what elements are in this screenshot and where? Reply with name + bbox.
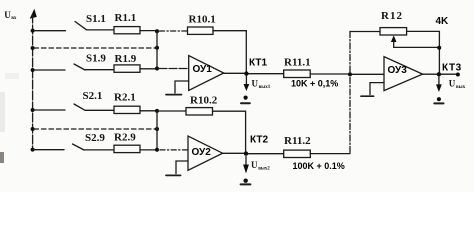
wire U3 noninverting input (370, 83, 384, 95)
input arrow (30, 9, 37, 19)
resistor R2.1 (114, 106, 140, 113)
node bus ellipsis1 (31, 46, 35, 50)
op-amp U2 (188, 136, 223, 170)
resistor R11.1 (284, 70, 311, 78)
resistor R11.2 (284, 150, 311, 157)
node bus row2 (31, 68, 35, 72)
svg-text:ОУ3: ОУ3 (388, 65, 408, 76)
wire row2 right (140, 68, 156, 70)
switch S1.1 (75, 22, 87, 30)
wire U1 noninverting input (175, 81, 189, 93)
svg-text:S1.9: S1.9 (86, 53, 106, 65)
node KT3 (437, 72, 441, 76)
node KT1 (244, 71, 248, 75)
wire ellipsis group2 (34, 128, 157, 130)
node B1 (155, 109, 159, 113)
svg-text:U: U (4, 10, 11, 20)
svg-text:КТ2: КТ2 (250, 135, 268, 146)
wire input bus (32, 14, 34, 150)
ground U2 (166, 174, 181, 176)
svg-text:U: U (449, 79, 456, 89)
wire U1 output (224, 72, 247, 74)
op-amp U1 (189, 56, 224, 91)
ground under KT2 (244, 179, 248, 183)
svg-text:R2.9: R2.9 (114, 132, 136, 144)
wire row1 mid (87, 29, 114, 31)
wire U2 noninverting input (176, 161, 188, 174)
svg-text:R11.2: R11.2 (284, 135, 311, 147)
wire summing column 3 (349, 32, 351, 154)
wire row1 left (34, 30, 66, 32)
node bus ellipsis2 (31, 127, 35, 131)
node bus row3 (31, 108, 35, 112)
svg-text:R2.1: R2.1 (114, 92, 136, 104)
node B2 (155, 148, 159, 152)
ground U1 (166, 94, 182, 96)
arrow Uout2 (245, 157, 247, 165)
wiper R12 (393, 41, 395, 47)
svg-text:КТ3: КТ3 (442, 62, 462, 73)
wire row3 mid (86, 109, 115, 111)
switch S2.1 (74, 104, 85, 110)
node output end (456, 73, 460, 77)
wire KT1 to R11.1 (249, 73, 284, 75)
resistor R10.2 (186, 108, 213, 115)
svg-text:S2.1: S2.1 (83, 90, 103, 102)
svg-text:ОУ1: ОУ1 (193, 64, 213, 75)
svg-text:U: U (251, 160, 258, 170)
svg-text:R1.9: R1.9 (115, 53, 137, 65)
op-amp U3 (384, 57, 423, 91)
node KT2 (244, 151, 248, 155)
svg-text:вх: вх (11, 16, 17, 21)
node summing 3 (348, 72, 352, 76)
wire to op-amp U1 input (159, 68, 189, 70)
wire B1 to R10.2 (159, 110, 186, 112)
svg-text:ОУ2: ОУ2 (192, 147, 212, 158)
svg-text:S2.9: S2.9 (85, 132, 105, 144)
resistor R2.9 (114, 145, 140, 152)
svg-text:100K + 0.1%: 100K + 0.1% (293, 161, 345, 171)
wire U3 output (423, 73, 458, 75)
svg-text:R1.1: R1.1 (115, 12, 137, 24)
wire row2 mid (86, 69, 115, 71)
svg-text:4K: 4K (436, 16, 450, 27)
wire A1 to R10.1 (160, 30, 188, 32)
node bus row4 (31, 148, 35, 152)
node B1b (155, 127, 159, 131)
ground under KT3 (437, 97, 441, 101)
wire R10.1 to feedback corner (213, 31, 246, 73)
svg-text:S1.1: S1.1 (86, 13, 106, 25)
svg-text:вых: вых (456, 85, 466, 90)
node A2 (155, 67, 159, 71)
wire summing column 1 (156, 32, 158, 69)
svg-text:R12: R12 (381, 10, 403, 22)
wire ellipsis group1 (34, 47, 157, 49)
node A1 (155, 29, 159, 33)
resistor R10.1 (188, 27, 214, 34)
wire R11.1 to summing node 3 (310, 73, 350, 75)
wire row4 right (140, 149, 156, 151)
switch S1.9 (74, 64, 85, 70)
svg-text:R10.1: R10.1 (189, 14, 216, 26)
wire to op-amp U2 input (160, 149, 188, 151)
svg-text:R11.1: R11.1 (284, 57, 311, 69)
wire row3 left (34, 109, 65, 111)
wire U2 output (223, 152, 246, 154)
ground under KT1 (244, 96, 248, 100)
wire KT2 to R11.2 (248, 153, 284, 155)
scan smudges (decorative) (0, 92, 5, 132)
resistor R1.1 (114, 27, 140, 34)
wire row3 right (140, 110, 156, 112)
switch S2.9 (73, 144, 85, 150)
node bus row1 (31, 29, 35, 33)
potentiometer R12 (380, 28, 407, 35)
input label Uvx (4, 10, 17, 21)
wire row4 mid (85, 149, 115, 151)
svg-text:вых2: вых2 (258, 167, 270, 172)
svg-text:U: U (252, 79, 259, 89)
wire R12 right (407, 31, 440, 73)
node A1b (155, 46, 159, 50)
ground U3 (361, 95, 374, 97)
wire summing column 2 (156, 111, 158, 150)
wire row2 left (34, 69, 65, 71)
wire R10.2 to feedback corner 2 (213, 111, 246, 153)
wire R12 left (350, 31, 380, 33)
wire wiper to output column (394, 46, 439, 48)
arrow Uout1 (245, 76, 247, 84)
node wiper junction (437, 46, 441, 50)
wire row4 left (34, 149, 64, 151)
arrow Uout (438, 77, 440, 84)
resistor R1.9 (114, 65, 140, 72)
wire U3 input (352, 73, 384, 75)
wire R11.2 to summing node 3 (310, 153, 350, 155)
svg-text:КТ1: КТ1 (249, 58, 267, 69)
wire row1 right (140, 30, 156, 32)
svg-text:R10.2: R10.2 (190, 95, 218, 107)
svg-text:10K + 0,1%: 10K + 0,1% (291, 78, 338, 88)
svg-text:вых1: вых1 (259, 85, 271, 90)
